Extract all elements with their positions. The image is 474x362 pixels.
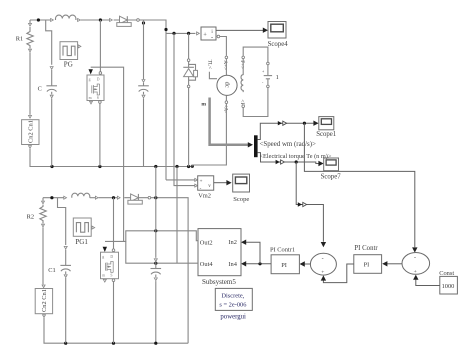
wire mosfet M1 drain lead	[99, 20, 101, 72]
diode D3 with snubber	[124, 194, 148, 204]
port arrow before inductor L2	[64, 196, 67, 199]
port arrow into capacitor C2	[154, 259, 157, 262]
arrow into sum1 bottom	[321, 275, 326, 280]
port arrow into Vm2 upper	[195, 178, 198, 181]
svg-text:Scope7: Scope7	[321, 173, 342, 180]
node rail snubber	[187, 165, 190, 168]
scope Scope	[233, 174, 250, 192]
svg-text:R2: R2	[27, 214, 34, 221]
wire top main rail from R1 corner to inductor	[30, 19, 50, 21]
svg-text:In4: In4	[228, 261, 237, 268]
scope Scope7	[324, 158, 339, 171]
wire speed to sum2 long line	[304, 123, 414, 247]
wire inductor L2 to diode D3	[98, 197, 117, 199]
node J2 drain branch	[99, 18, 102, 21]
svg-text:m: m	[89, 96, 92, 100]
wire Out4 long line	[126, 241, 198, 263]
svg-text:A+>: A+>	[222, 60, 228, 70]
wire diode D1 to corner	[139, 20, 166, 180]
wire Cn2Cn1 to ground rail	[30, 149, 192, 167]
node bottom rail C1	[64, 342, 67, 345]
svg-text:C1: C1	[48, 267, 55, 274]
node lower mid column	[154, 196, 157, 199]
wire Vm2 to Scope	[214, 182, 227, 184]
arrow into Scope1	[313, 121, 318, 126]
arrow into demux	[248, 142, 253, 147]
arrow into sum1 top	[321, 242, 326, 247]
wire lower main from R2 corner	[43, 197, 64, 199]
gate arrow into mosfet M2	[103, 247, 107, 252]
svg-text:PI: PI	[364, 262, 370, 269]
node J3	[142, 21, 145, 24]
wire mosfet M2 source to bottom rail	[113, 282, 115, 344]
svg-text:-: -	[262, 80, 264, 85]
current measurement block U1	[201, 27, 216, 41]
port circle F+	[242, 56, 245, 59]
svg-text:D: D	[97, 77, 100, 81]
pulse generator PG1	[73, 218, 94, 236]
snubber diode D2 vertical	[183, 33, 197, 166]
wire rail column to Out4 line	[176, 167, 178, 264]
PI controller box right	[354, 255, 382, 274]
capacitor C2 mid	[151, 262, 162, 343]
wire mosfet M1 source to rail	[99, 103, 101, 166]
wire sum2 out to PI Contr	[387, 263, 402, 265]
svg-text:1: 1	[276, 74, 279, 81]
node rail mosfet source	[98, 165, 101, 168]
svg-text:s = 2e-006: s = 2e-006	[219, 301, 246, 308]
node J6	[187, 32, 190, 35]
svg-text:PI Contr1: PI Contr1	[270, 246, 295, 253]
svg-text:Scope: Scope	[233, 196, 249, 203]
arrow into Scope7	[318, 161, 323, 166]
signal arrows speed	[278, 121, 282, 125]
capacitor C1	[60, 250, 71, 344]
voltage measurement Vm2	[198, 176, 214, 192]
port arrow after inductor L2	[95, 196, 98, 199]
arrow into Scope4	[263, 28, 268, 33]
wire field loop bottom	[243, 88, 268, 117]
sum block sum1	[310, 253, 336, 275]
scope Scope1	[319, 117, 334, 130]
port arrow into diode D1	[110, 19, 113, 22]
svg-text:dc: dc	[224, 82, 231, 88]
arrow into In4	[241, 261, 246, 266]
svg-text:Scope4: Scope4	[268, 41, 289, 48]
inductor L2	[72, 193, 90, 197]
wire PI Contr out loop to sum1 plus	[323, 264, 353, 283]
svg-text:PI: PI	[281, 262, 287, 269]
svg-text:D: D	[110, 255, 113, 259]
svg-text:powergui: powergui	[220, 313, 246, 320]
bus wire m to demux	[210, 98, 249, 145]
wire coil to port	[90, 197, 95, 199]
block Cn2 Cn1 upper	[22, 120, 39, 145]
port arrow into Vm2 lower	[195, 184, 198, 187]
port arrow below Cn2Cn1 lower	[43, 315, 46, 318]
port marks under mosfet M1	[90, 101, 93, 104]
arrow into Scope	[226, 180, 231, 185]
dc machine armature circle	[217, 75, 237, 95]
svg-text:In2: In2	[228, 239, 237, 246]
port arrow into Cn2Cn1 top	[29, 115, 32, 118]
svg-text:Scope1: Scope1	[316, 131, 336, 138]
svg-text:Out2: Out2	[200, 239, 213, 246]
port arrow into diode D3	[117, 196, 120, 199]
signal arrows torque	[276, 160, 280, 164]
discrete powergui block	[215, 288, 252, 310]
svg-text:<Electrical torque Te (n m)>: <Electrical torque Te (n m)>	[260, 153, 332, 160]
svg-text:Cn2 Cn1: Cn2 Cn1	[41, 289, 48, 312]
wire Cn2Cn1 lower to bottom rail	[44, 318, 188, 343]
svg-text:g: g	[89, 77, 91, 81]
wire Out2 to lower mosfet gate	[105, 231, 198, 242]
subsystem block Subsystem5	[198, 229, 241, 276]
svg-text:F+>: F+>	[239, 60, 245, 69]
arrow into In2	[241, 240, 246, 245]
wire A- lead down	[225, 95, 227, 100]
svg-text:-: -	[414, 255, 416, 261]
node In branch	[258, 262, 261, 265]
wire A- return to rail	[192, 104, 226, 167]
svg-text:Discrete,: Discrete,	[221, 292, 244, 299]
port arrow into Cn2Cn1 lower	[42, 285, 45, 288]
svg-text:Out4: Out4	[200, 261, 214, 268]
node rail mid column	[154, 165, 157, 168]
svg-text:m: m	[102, 274, 105, 278]
wire field loop top to battery	[243, 47, 268, 62]
svg-text:+: +	[321, 270, 324, 276]
port circle after diode D3	[148, 196, 151, 199]
svg-text:PI Contr: PI Contr	[354, 245, 378, 252]
svg-text:-: -	[322, 256, 324, 262]
port arrow after inductor L1	[78, 19, 81, 22]
inductor L1	[56, 15, 76, 20]
arrow into PI Contr1	[300, 261, 305, 266]
svg-text:R1: R1	[16, 36, 23, 43]
dc source battery 1	[262, 65, 272, 88]
svg-text:TL<: TL<	[206, 60, 212, 70]
node bottom rail mosfet2	[112, 342, 115, 345]
block Cn2 Cn1 lower	[35, 289, 52, 314]
mid column wire top rail to bottom rail	[155, 167, 157, 258]
port arrow below Cn2Cn1	[29, 146, 32, 149]
port circle A-	[225, 101, 228, 104]
port circle mosfet M1 drain	[99, 72, 102, 75]
svg-text:PG1: PG1	[75, 238, 88, 246]
port arrow into capacitor C1	[64, 246, 67, 249]
wire Vm2 plus sense line continue of main vertical	[166, 179, 195, 181]
constant block 1000	[440, 276, 458, 294]
wire gate feed top mosfet	[91, 67, 124, 241]
node bottom rail mid	[154, 342, 157, 345]
wire mosfet M2 drain lead	[113, 198, 115, 249]
svg-text:+: +	[200, 179, 203, 184]
node lower drain branch	[112, 196, 115, 199]
sum block sum2	[402, 253, 430, 275]
wire capacitor C2a top lead	[143, 20, 145, 79]
wire branch to current meas block	[166, 32, 195, 34]
resistor R1	[27, 20, 33, 115]
resistor R2	[40, 198, 46, 285]
svg-text:PG: PG	[64, 60, 73, 68]
port circle U1 minus out	[217, 35, 220, 38]
svg-text:<Speed wm (rad/s)>: <Speed wm (rad/s)>	[260, 141, 316, 148]
node torque branch	[295, 160, 298, 163]
port circle battery top	[267, 62, 270, 65]
wire TL stub	[209, 72, 217, 79]
port circle mosfet M2 drain	[112, 249, 115, 252]
port arrow into current measurement U1	[197, 32, 200, 35]
wire sum1 out to PI Contr1	[305, 263, 311, 265]
svg-text:C: C	[38, 85, 42, 92]
svg-text:Cn2 Cn1: Cn2 Cn1	[28, 120, 35, 143]
wire torque output from demux	[258, 153, 319, 164]
svg-text:+: +	[262, 69, 265, 74]
arrow into PI Contr	[382, 261, 387, 266]
node rail A- step	[191, 165, 194, 168]
mosfet M2 block	[101, 252, 119, 279]
port circle F-	[242, 105, 245, 108]
svg-text:<A-: <A-	[223, 104, 229, 113]
wire torque to sum1	[296, 162, 323, 242]
arrow into sum2 bottom	[413, 275, 418, 280]
capacitor C2a mid column	[138, 83, 149, 167]
node rail out4 column	[175, 165, 178, 168]
svg-text:+: +	[203, 32, 207, 39]
gate arrow into mosfet M1	[89, 69, 93, 74]
signal arrows torque branch	[298, 202, 302, 206]
field winding coil	[241, 59, 243, 92]
wire A+ into machine	[225, 59, 227, 76]
port marks under mosfet M2	[103, 279, 106, 282]
svg-text:Subsystem5: Subsystem5	[202, 278, 236, 286]
scope Scope4	[268, 22, 286, 39]
svg-text:m: m	[201, 102, 206, 108]
diode D1 with snubber	[114, 16, 137, 26]
svg-text:S: S	[110, 274, 112, 278]
wire jog to capacitor C1	[58, 198, 66, 245]
port circle after diode D1	[137, 19, 140, 22]
node rail C	[50, 165, 53, 168]
svg-text:g: g	[102, 255, 104, 259]
wire U1 output to Scope4	[216, 29, 263, 31]
svg-text:S: S	[97, 96, 99, 100]
node lower J1	[50, 196, 53, 199]
capacitor C	[46, 70, 57, 167]
wire U1 to A+ of machine	[220, 37, 227, 56]
port arrow before inductor L1	[51, 19, 54, 22]
wire diode D3 to down corner	[151, 198, 188, 344]
wire branch to In2	[246, 242, 260, 264]
port circle A+	[225, 56, 228, 59]
wire inductor to diode D1	[81, 19, 110, 21]
port arrow into capacitor C2a	[142, 80, 145, 83]
mosfet M1 block	[87, 75, 104, 101]
node Out2 cross cap column	[154, 229, 157, 232]
pulse generator PG	[60, 42, 81, 60]
node speed branch	[303, 122, 306, 125]
svg-text:1000: 1000	[442, 283, 455, 290]
wire speed output from demux	[258, 123, 314, 139]
node Out4 cross cap column	[154, 262, 157, 265]
port arrow into capacitor C	[50, 67, 53, 70]
wire Vm2 minus sense line	[174, 33, 195, 185]
node J1	[37, 18, 40, 21]
wire jog from top rail to capacitor C	[46, 20, 52, 65]
wire PI Contr1 out to In4 and In2	[246, 263, 271, 265]
node J5	[172, 32, 175, 35]
wire Const to sum2 plus	[416, 280, 440, 286]
demux bus selector bar	[254, 135, 258, 157]
node J4	[164, 28, 167, 31]
arrow into sum2 top	[412, 247, 417, 252]
PI controller box left	[271, 255, 299, 274]
svg-text:-: -	[211, 34, 213, 41]
svg-text:Vm2: Vm2	[198, 192, 211, 199]
svg-text:+: +	[414, 269, 417, 275]
